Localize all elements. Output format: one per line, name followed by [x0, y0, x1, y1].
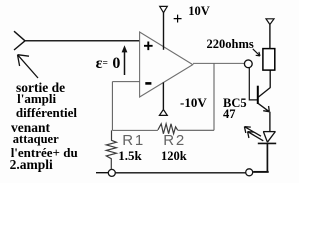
- label: 220ohms: [207, 38, 254, 51]
- label: + 10V top: [173, 10, 183, 27]
- label: R1 R2: [122, 133, 145, 148]
- wire: main input wire to + input: [25, 40, 140, 42]
- wire: bottom horizontal wire: [96, 172, 108, 174]
- wire: inverting input wire: [112, 81, 139, 83]
- transistor Q1 base bar: [257, 86, 259, 104]
- node: output terminal circle: [244, 60, 252, 68]
- wire: op-amp output wire: [193, 62, 244, 64]
- wire: annotation arrow pointing to input: [18, 55, 39, 78]
- label: 1.5k: [118, 149, 141, 162]
- op-amp plus input symbol: [144, 42, 153, 51]
- LED emission arrow 2: [248, 132, 264, 141]
- label arrow from 220ohms text to resistor: [253, 49, 260, 56]
- power +10V supply line on op-amp: [163, 13, 165, 50]
- power supply line above 220 ohm resistor: [269, 25, 271, 49]
- resistor R1 zigzag vertical: [106, 130, 116, 169]
- wire: output circle down to transistor base: [249, 68, 257, 100]
- LED emission arrow 1: [244, 127, 261, 137]
- label: BC547: [223, 97, 247, 110]
- op-amp U1 triangle: [140, 32, 193, 97]
- label: sortie text block: [16, 81, 65, 95]
- resistor 220 ohms box: [263, 49, 275, 71]
- label: epsilon = 0: [96, 56, 121, 72]
- power -10V supply line on op-amp: [162, 82, 164, 109]
- transistor Q1 emitter lead with arrow: [258, 103, 269, 111]
- wire: feedback right vertical to output: [213, 64, 215, 131]
- wire: R2 to output tap: [178, 129, 214, 131]
- wire: emitter down to LED: [269, 112, 271, 132]
- node: bottom right terminal circle: [246, 169, 253, 176]
- resistor R2 zigzag: [158, 124, 178, 134]
- wire: feedback left vertical: [111, 82, 113, 131]
- node: bottom left terminal circle: [108, 169, 115, 176]
- wire: feedback bottom horizontal: [112, 129, 157, 131]
- node A: input arrow symbol: [14, 31, 25, 50]
- node epsilon arrow: [124, 51, 126, 76]
- transistor Q1 collector lead: [258, 70, 270, 97]
- wire: LED cathode down and to node circle: [266, 143, 268, 171]
- label: -10V: [180, 96, 207, 109]
- op-amp minus input symbol: [145, 82, 151, 85]
- label: 120k: [161, 150, 187, 163]
- diode LED D1: [263, 131, 276, 133]
